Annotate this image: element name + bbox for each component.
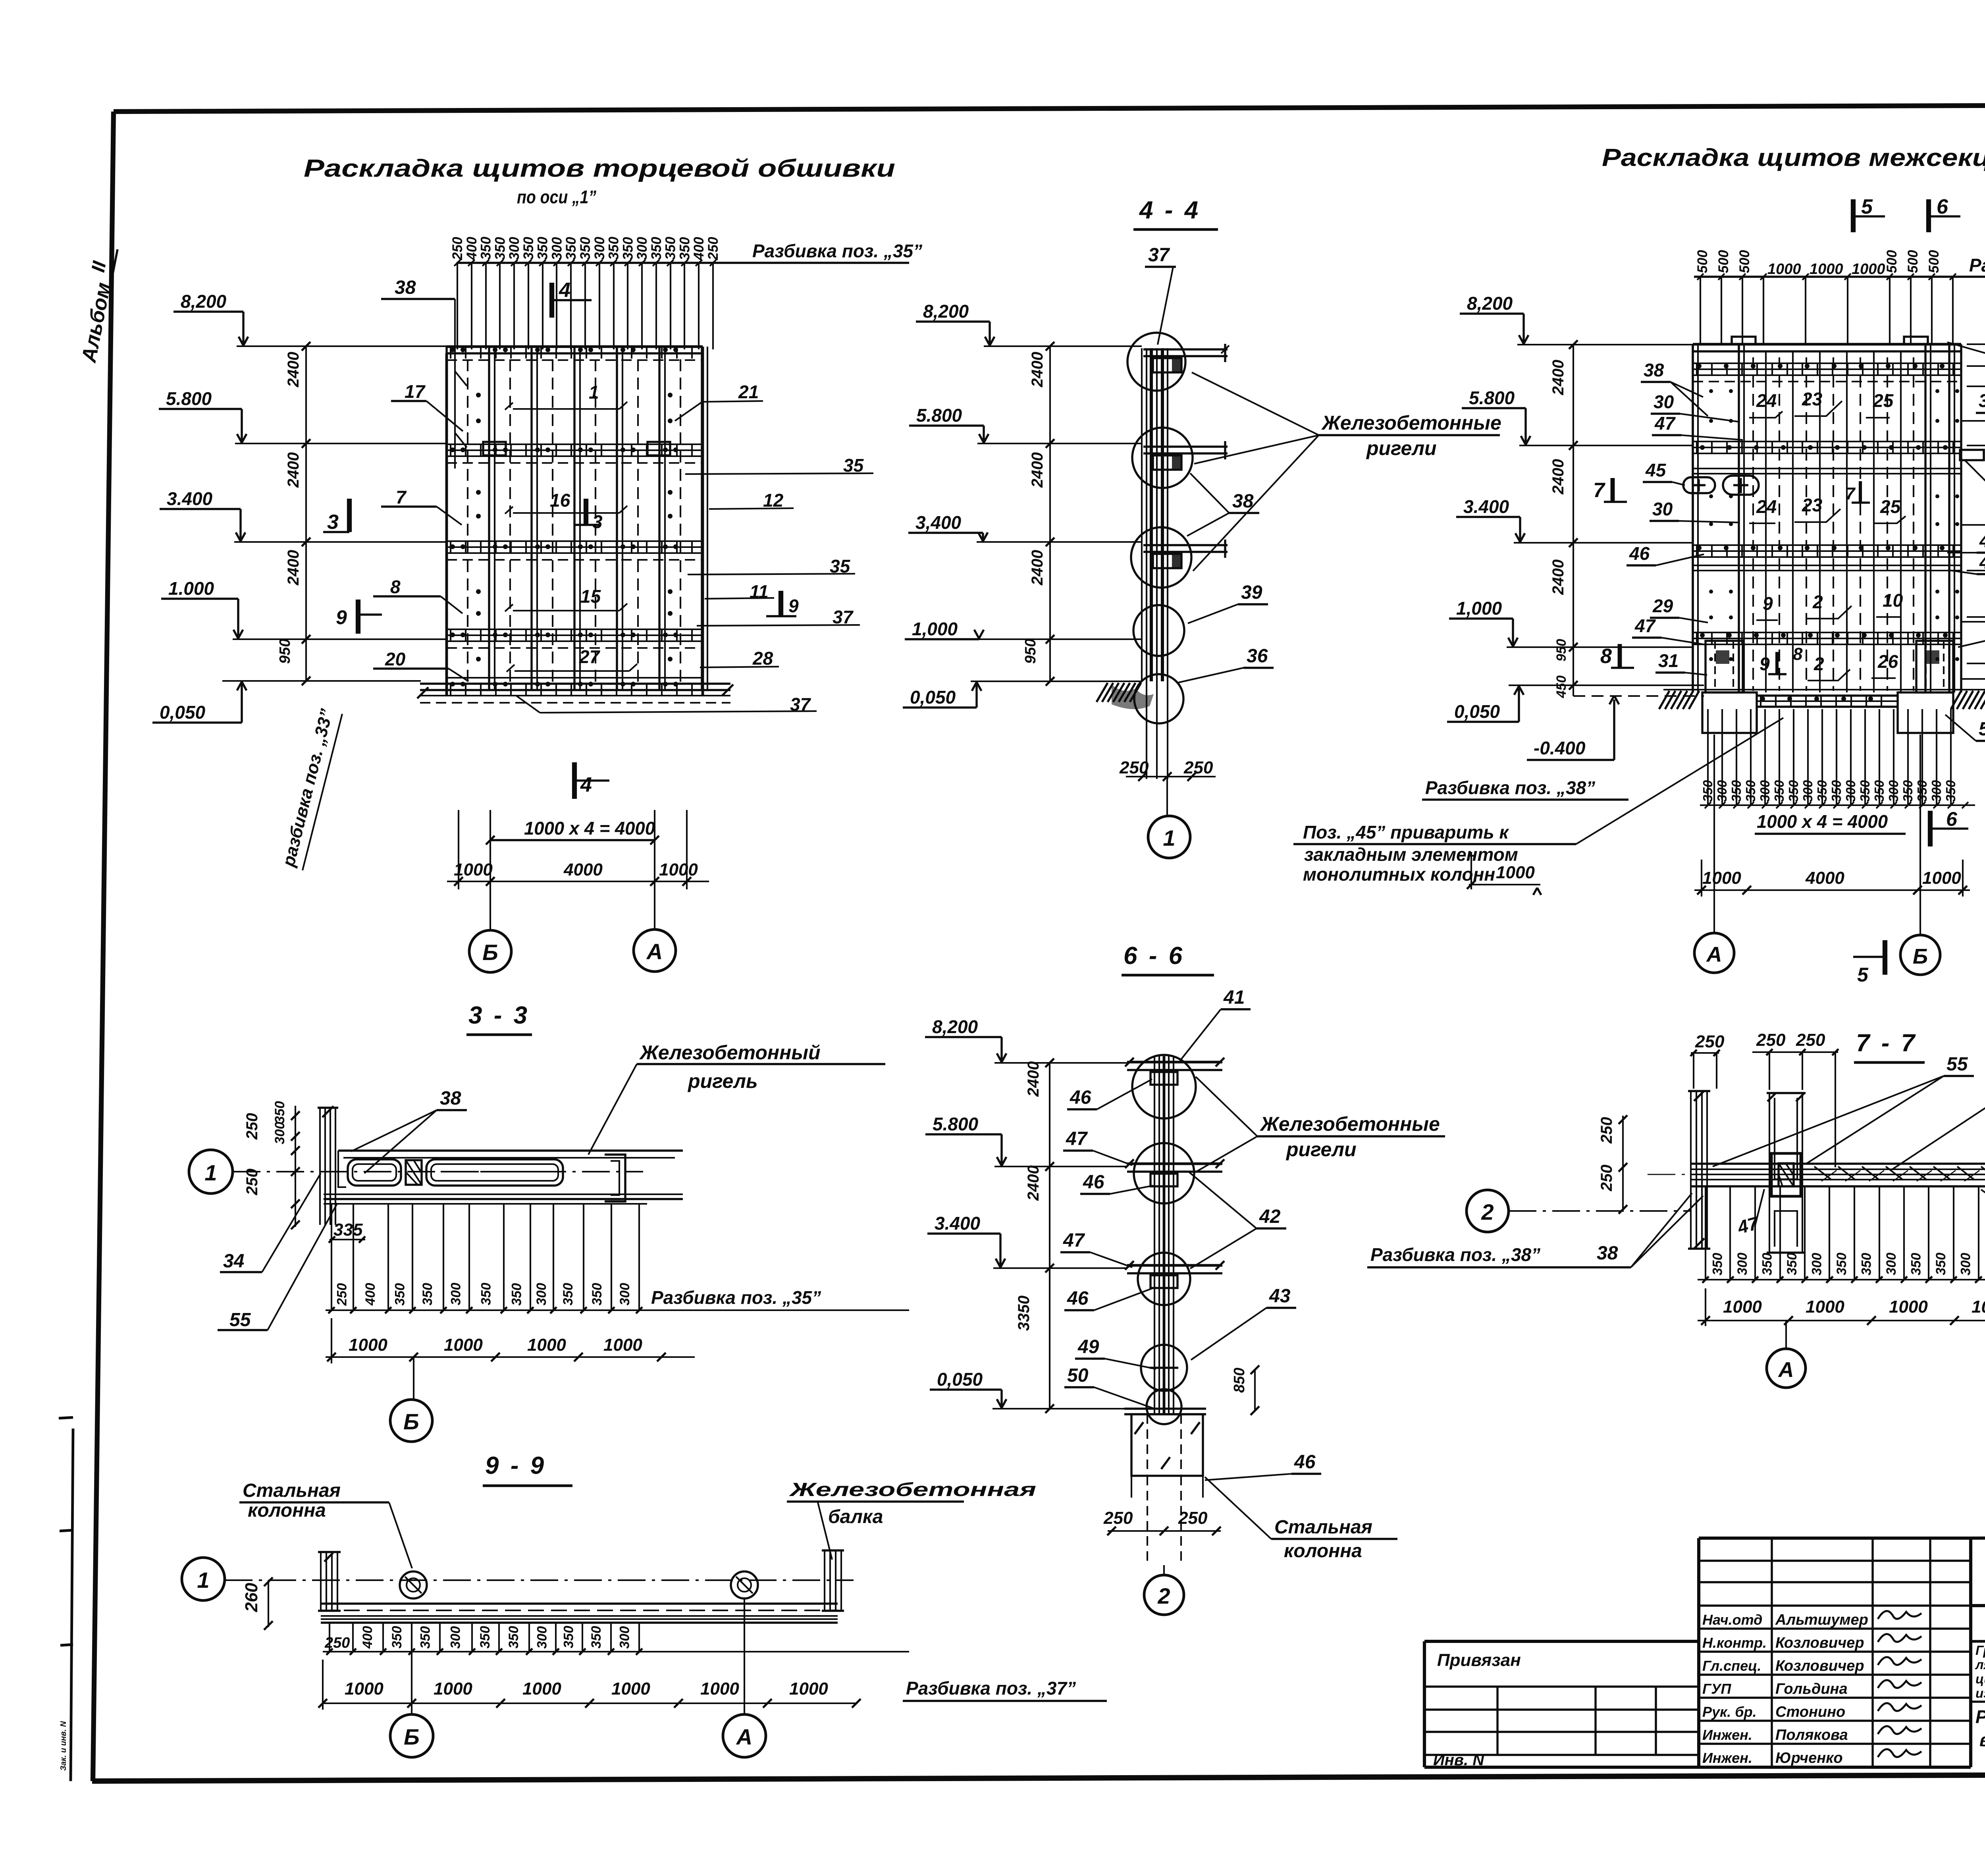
E2 ground line	[1663, 689, 1985, 690]
svg-text:350: 350	[1872, 780, 1887, 802]
S44 level lines	[984, 345, 1142, 347]
svg-text:31: 31	[1658, 650, 1679, 671]
S77 bolt washer square	[1771, 1153, 1801, 1196]
svg-text:300: 300	[617, 1283, 632, 1305]
svg-text:37: 37	[1148, 245, 1170, 266]
E2 top fan baseline / razbivka 40 underline	[1694, 276, 1985, 278]
svg-text:24: 24	[1756, 496, 1777, 517]
title block: designation box	[1971, 1537, 1985, 1538]
svg-text:1000: 1000	[611, 1679, 650, 1699]
svg-text:350: 350	[561, 1626, 576, 1648]
svg-text:по оси „1”: по оси „1”	[517, 187, 596, 207]
S33 beam body	[338, 1149, 683, 1151]
sheet border left	[93, 112, 114, 1781]
svg-text:9: 9	[336, 606, 347, 629]
E1 rail band level2	[447, 443, 703, 445]
S33 right end channel	[605, 1155, 625, 1201]
svg-text:400: 400	[363, 1283, 378, 1306]
svg-text:46: 46	[1067, 1288, 1089, 1309]
svg-text:4: 4	[580, 773, 592, 796]
svg-text:500: 500	[1905, 250, 1921, 273]
title block: privyazan box	[1424, 1640, 1699, 1643]
svg-text:Б: Б	[403, 1409, 419, 1434]
svg-text:2400: 2400	[1549, 459, 1567, 495]
S33 fan baseline	[326, 1309, 695, 1311]
E2 anchor capsule 1	[1683, 477, 1715, 493]
E1 level lines	[237, 345, 447, 347]
svg-text:350: 350	[649, 237, 664, 260]
svg-text:27: 27	[579, 646, 601, 667]
svg-text:500: 500	[1926, 250, 1942, 273]
svg-text:Разбивка поз. „35”: Разбивка поз. „35”	[651, 1287, 821, 1308]
svg-text:350: 350	[563, 237, 579, 260]
svg-text:450: 450	[1554, 675, 1569, 698]
svg-text:2400: 2400	[285, 352, 302, 388]
svg-text:1.000: 1.000	[168, 578, 214, 599]
svg-text:6: 6	[1946, 808, 1958, 830]
svg-text:Привязан: Привязан	[1437, 1650, 1521, 1670]
svg-text:16: 16	[550, 490, 570, 511]
svg-text:1000: 1000	[1810, 261, 1843, 278]
svg-text:350: 350	[389, 1626, 405, 1648]
svg-text:1000: 1000	[349, 1335, 387, 1355]
svg-text:49: 49	[1077, 1336, 1099, 1357]
svg-text:350: 350	[620, 237, 636, 260]
S77 bottom fan	[1705, 1187, 1706, 1280]
svg-text:300: 300	[534, 1283, 549, 1305]
svg-text:350: 350	[420, 1283, 435, 1305]
svg-text:8,200: 8,200	[923, 301, 969, 322]
svg-text:9: 9	[1763, 593, 1773, 614]
S77 member centerline	[1648, 1174, 1985, 1175]
S33 razbivka 35 extension	[695, 1309, 909, 1311]
svg-text:350: 350	[663, 237, 678, 260]
svg-text:1,000: 1,000	[912, 619, 958, 639]
svg-text:250: 250	[1183, 758, 1213, 777]
svg-text:2400: 2400	[1029, 452, 1046, 488]
svg-text:Инв. N: Инв. N	[1433, 1751, 1484, 1769]
svg-text:250: 250	[243, 1168, 261, 1195]
svg-text:1000: 1000	[603, 1335, 642, 1355]
svg-text:1: 1	[204, 1160, 217, 1185]
svg-text:8: 8	[1793, 644, 1803, 664]
svg-text:ГУП: ГУП	[1702, 1681, 1731, 1697]
svg-text:47: 47	[1066, 1128, 1088, 1149]
S77 axis circle 2	[1467, 1190, 1509, 1232]
S99 axis circle B	[390, 1714, 433, 1757]
svg-text:500: 500	[1737, 250, 1752, 273]
E1 axis line A	[654, 810, 655, 930]
svg-text:9: 9	[788, 596, 799, 616]
svg-text:47: 47	[1634, 615, 1656, 636]
S44 ledger bar level1	[1143, 348, 1228, 350]
svg-text:39: 39	[1241, 582, 1262, 603]
svg-text:350: 350	[1908, 1253, 1923, 1275]
svg-text:1: 1	[197, 1568, 209, 1593]
S99 axis line B	[411, 1623, 412, 1714]
binding tick 1	[59, 1417, 73, 1418]
S44 ledger bar level3	[1143, 544, 1228, 546]
svg-text:3.400: 3.400	[1463, 496, 1509, 517]
S33 dim line 2	[326, 1356, 695, 1358]
S44 axis circle 1	[1148, 816, 1190, 858]
svg-text:А: А	[1778, 1358, 1794, 1382]
E2 ground hatch right	[1951, 691, 1961, 709]
svg-text:42: 42	[1259, 1206, 1281, 1227]
svg-text:47: 47	[1654, 413, 1676, 434]
svg-text:7: 7	[396, 487, 407, 507]
S33 rigel leader	[588, 1064, 637, 1155]
svg-text:350: 350	[492, 237, 508, 260]
svg-text:А: А	[736, 1724, 752, 1749]
S77 axis line A	[1785, 1321, 1787, 1348]
svg-text:41: 41	[1223, 987, 1245, 1008]
S33 left dim stack	[295, 1106, 296, 1227]
sheet border top	[114, 104, 1985, 112]
svg-text:1000: 1000	[444, 1335, 483, 1355]
svg-text:26: 26	[1877, 651, 1898, 672]
E1 axis circle B	[469, 930, 511, 972]
S44 ground line	[971, 681, 1142, 682]
S77 axis circle A	[1767, 1349, 1806, 1388]
svg-text:Разбивка поз. „37”: Разбивка поз. „37”	[906, 1678, 1076, 1699]
E1 section flag 4 (bottom)	[572, 762, 577, 799]
svg-text:300: 300	[1929, 780, 1944, 802]
E2 axis line A	[1713, 735, 1715, 933]
svg-text:250: 250	[1796, 1030, 1825, 1050]
E2 axis line B	[1919, 735, 1921, 935]
svg-text:1000 х 4 = 4000: 1000 х 4 = 4000	[524, 818, 655, 839]
svg-text:350: 350	[393, 1283, 408, 1306]
svg-text:Б: Б	[404, 1724, 420, 1749]
svg-text:46: 46	[1070, 1087, 1091, 1108]
svg-text:350: 350	[1858, 780, 1872, 802]
svg-text:950: 950	[1022, 639, 1039, 664]
svg-text:36: 36	[1247, 646, 1268, 667]
svg-text:Зак. и инв. N: Зак. и инв. N	[59, 1721, 68, 1771]
svg-text:монолитных колонн: монолитных колонн	[1303, 864, 1495, 885]
svg-text:28: 28	[752, 648, 773, 669]
S66 pedestal flange	[1124, 1407, 1206, 1409]
privyazan inner grid	[1424, 1685, 1699, 1687]
svg-text:Нач.отд: Нач.отд	[1702, 1612, 1762, 1628]
svg-text:300: 300	[1800, 780, 1815, 802]
svg-text:1000: 1000	[454, 860, 493, 879]
svg-text:55: 55	[229, 1309, 251, 1330]
S99 beam	[321, 1602, 838, 1604]
svg-text:300: 300	[272, 1122, 287, 1144]
svg-text:29: 29	[1652, 596, 1673, 616]
svg-text:300: 300	[1715, 780, 1729, 802]
S77 wood hatch	[1814, 1166, 1832, 1180]
svg-text:250: 250	[324, 1635, 350, 1651]
title block: staff table	[1697, 1538, 1700, 1767]
S99 axis line A	[744, 1598, 745, 1714]
S99 bottom fan	[329, 1623, 330, 1652]
S66 bar level1	[1127, 1061, 1222, 1064]
svg-text:300: 300	[507, 237, 522, 260]
svg-text:335: 335	[333, 1220, 363, 1240]
svg-text:2400: 2400	[285, 550, 302, 586]
E2 foundation left	[1702, 692, 1757, 733]
svg-text:5.800: 5.800	[916, 405, 962, 426]
svg-text:300: 300	[535, 1626, 550, 1649]
svg-text:46: 46	[1294, 1452, 1316, 1473]
S66 bar level2	[1127, 1163, 1222, 1165]
S33 hatched block	[406, 1160, 422, 1185]
svg-text:1,000: 1,000	[1456, 598, 1502, 619]
svg-text:350: 350	[578, 237, 593, 260]
svg-text:Разбивка поз. „38”: Разбивка поз. „38”	[1370, 1244, 1540, 1265]
S66 detail circle 2	[1134, 1143, 1194, 1203]
svg-text:2400: 2400	[1029, 352, 1046, 388]
svg-text:9: 9	[1760, 654, 1770, 674]
S44 column shaft	[1141, 348, 1143, 681]
S99 axis dashdot	[225, 1579, 854, 1581]
svg-text:Альтшумер: Альтшумер	[1775, 1612, 1868, 1628]
svg-text:3.400: 3.400	[167, 488, 213, 509]
note Poz45 leader to foundation	[1576, 718, 1783, 844]
svg-text:30: 30	[1652, 499, 1673, 519]
svg-text:2: 2	[1481, 1199, 1494, 1224]
svg-text:300: 300	[549, 237, 565, 260]
description divider	[1971, 1701, 1985, 1702]
svg-text:20: 20	[385, 649, 406, 669]
S77 member	[1691, 1163, 1985, 1165]
svg-text:3,400: 3,400	[915, 512, 962, 533]
svg-text:400: 400	[360, 1626, 375, 1649]
svg-text:3: 3	[327, 511, 339, 534]
svg-text:8: 8	[390, 576, 401, 597]
svg-text:Стальная: Стальная	[1274, 1517, 1372, 1538]
S66 splice c4	[1150, 1367, 1178, 1369]
svg-text:10: 10	[1883, 590, 1903, 611]
E2 bottom fan baseline	[1700, 804, 1975, 806]
svg-text:350: 350	[506, 1626, 521, 1648]
svg-text:350: 350	[1915, 780, 1929, 802]
svg-text:8: 8	[1600, 645, 1612, 668]
svg-text:Гл.спец.: Гл.спец.	[1702, 1658, 1761, 1674]
svg-text:1000: 1000	[1972, 1297, 1985, 1317]
svg-text:Инжен.: Инжен.	[1702, 1727, 1752, 1743]
svg-text:950: 950	[277, 639, 293, 664]
E1 mid-panel dots	[476, 393, 481, 397]
svg-text:Б: Б	[1913, 945, 1928, 968]
svg-text:850: 850	[1231, 1368, 1248, 1393]
S44 detail circle 2	[1132, 428, 1193, 488]
S77 lower U channel	[1769, 1186, 1770, 1253]
svg-text:Гольдина: Гольдина	[1775, 1681, 1848, 1697]
E1 bottom dim lines	[490, 839, 655, 841]
E1 rail band level3	[447, 540, 703, 542]
svg-text:2400: 2400	[1025, 1061, 1042, 1097]
E1 rail plate right	[648, 442, 670, 455]
S44 detail circle 1	[1127, 333, 1185, 391]
svg-text:300: 300	[1735, 1253, 1750, 1275]
S44 buried column	[1146, 681, 1147, 779]
svg-text:3.400: 3.400	[935, 1213, 981, 1234]
svg-text:5.800: 5.800	[166, 388, 212, 409]
svg-text:50: 50	[1067, 1365, 1089, 1386]
svg-text:300: 300	[449, 1283, 464, 1305]
svg-text:Железобетонная: Железобетонная	[788, 1479, 1036, 1500]
S99 washer 2	[731, 1571, 758, 1598]
S77 dim line 2	[1698, 1320, 1985, 1321]
svg-text:Градирня двухсекционная с вент: Градирня двухсекционная с вент.	[1975, 1643, 1985, 1658]
E2 foundation slab dashed	[1573, 684, 1704, 686]
svg-text:из железобетонных элементов: из железобетонных элементов	[1975, 1686, 1985, 1701]
E1 grid dashed top line	[447, 359, 703, 361]
E2 rail band 2	[1693, 441, 1961, 442]
S99 fan baseline	[323, 1651, 909, 1652]
svg-text:400: 400	[464, 237, 480, 260]
svg-text:циями площадью 24м² с каркасом: циями площадью 24м² с каркасом	[1975, 1672, 1985, 1686]
E1 top fan lines	[457, 263, 458, 349]
E2 ground hatch left	[1659, 691, 1669, 709]
svg-text:Инжен.: Инжен.	[1702, 1750, 1752, 1766]
svg-text:1000: 1000	[1767, 261, 1801, 278]
svg-text:23: 23	[1802, 495, 1823, 515]
svg-text:350: 350	[509, 1283, 524, 1306]
svg-text:ригель: ригель	[687, 1070, 758, 1092]
S33 axis circle B	[390, 1400, 432, 1442]
svg-text:7: 7	[1593, 479, 1605, 502]
svg-text:Козловичер: Козловичер	[1775, 1658, 1864, 1674]
svg-text:2: 2	[1157, 1583, 1170, 1608]
E2 panel grid outline	[1693, 343, 1961, 346]
note Poz45 underline	[1293, 843, 1576, 845]
svg-text:46: 46	[1629, 543, 1650, 564]
svg-text:1000: 1000	[1852, 261, 1885, 278]
svg-text:350: 350	[478, 237, 494, 260]
E1 panel grid outline	[447, 345, 703, 348]
svg-text:25: 25	[1880, 496, 1901, 517]
svg-text:48: 48	[1979, 552, 1985, 573]
svg-text:300: 300	[592, 237, 607, 260]
E2 level lines	[1517, 344, 1693, 345]
svg-text:1: 1	[589, 382, 599, 403]
S66 axis circle 2	[1144, 1575, 1184, 1615]
svg-text:350: 350	[272, 1101, 287, 1124]
svg-text:38: 38	[1232, 491, 1254, 512]
E2 grid verticals double	[1692, 344, 1694, 692]
svg-text:1000: 1000	[522, 1679, 561, 1699]
E2 pedestal right	[1916, 641, 1953, 692]
svg-text:47: 47	[1063, 1230, 1085, 1251]
svg-text:0,050: 0,050	[937, 1369, 983, 1390]
svg-text:250: 250	[1756, 1030, 1786, 1050]
svg-text:1000: 1000	[345, 1679, 384, 1699]
svg-text:350: 350	[561, 1283, 576, 1305]
svg-text:А: А	[1706, 943, 1722, 966]
svg-text:1000: 1000	[1922, 868, 1961, 888]
S66 detail circle 3	[1138, 1253, 1190, 1305]
E1 top dimension fan baseline	[457, 262, 909, 264]
S99 left channel	[320, 1552, 322, 1611]
svg-text:250: 250	[243, 1113, 261, 1140]
svg-text:ригели: ригели	[1285, 1138, 1357, 1161]
svg-text:250: 250	[1695, 1032, 1725, 1051]
svg-text:1000: 1000	[1723, 1297, 1762, 1317]
S44 detail circle 5	[1134, 674, 1183, 723]
E2 pedestal left	[1706, 641, 1743, 692]
E2 section flag 5 (top)	[1851, 199, 1856, 232]
svg-text:250: 250	[1178, 1508, 1208, 1528]
E2 axis circle A	[1694, 933, 1734, 973]
S77 left channel	[1690, 1091, 1692, 1249]
svg-text:8,200: 8,200	[932, 1016, 978, 1037]
svg-text:350: 350	[606, 237, 622, 260]
svg-text:0,050: 0,050	[910, 687, 956, 708]
svg-text:Разбивка поз. „40”: Разбивка поз. „40”	[1969, 255, 1985, 276]
svg-text:350: 350	[1700, 780, 1715, 802]
svg-text:1000: 1000	[1702, 868, 1741, 888]
E2 axis circle B	[1900, 935, 1940, 975]
svg-text:300: 300	[1843, 780, 1858, 802]
svg-text:5: 5	[1857, 964, 1869, 986]
E2 section flag 6 (bottom)	[1928, 811, 1933, 846]
E2 anchor capsule 2	[1723, 476, 1759, 495]
svg-text:ляторами 3ВГ25 кабельная с сек: ляторами 3ВГ25 кабельная с сек-	[1975, 1657, 1985, 1672]
E2 top tabs	[1732, 337, 1756, 344]
S66 pedestal	[1131, 1414, 1203, 1476]
svg-text:350: 350	[1786, 780, 1801, 802]
svg-text:47: 47	[1979, 530, 1985, 551]
S77 upper U channel	[1769, 1093, 1770, 1195]
svg-text:1000: 1000	[789, 1679, 828, 1699]
svg-text:350: 350	[590, 1283, 605, 1305]
svg-text:250: 250	[705, 237, 721, 260]
svg-text:300: 300	[1758, 780, 1772, 802]
svg-text:350: 350	[1710, 1253, 1725, 1275]
svg-text:1000: 1000	[1889, 1297, 1928, 1317]
E1 base sill	[447, 677, 703, 679]
svg-text:300: 300	[617, 1626, 632, 1649]
S44 axis line 1	[1166, 779, 1168, 816]
svg-text:350: 350	[1743, 780, 1758, 802]
svg-text:250: 250	[335, 1283, 350, 1306]
svg-text:300: 300	[1886, 780, 1901, 802]
svg-text:Поз. „45” приварить к: Поз. „45” приварить к	[1303, 822, 1509, 843]
svg-text:Козловичер: Козловичер	[1775, 1635, 1864, 1651]
svg-text:38: 38	[440, 1088, 461, 1109]
S66 pedestal base dashes	[1147, 1476, 1148, 1565]
svg-text:А: А	[646, 939, 663, 964]
svg-text:350: 350	[1859, 1253, 1874, 1275]
svg-text:ригели: ригели	[1366, 437, 1437, 459]
E1 fastener dots	[450, 347, 455, 352]
svg-text:4000: 4000	[1805, 868, 1844, 888]
S99 axis circle 1	[182, 1558, 225, 1600]
S33 bottom fan	[331, 1204, 332, 1310]
svg-text:8,200: 8,200	[1467, 293, 1513, 314]
svg-text:38: 38	[1644, 360, 1664, 380]
svg-text:колонна: колонна	[1284, 1541, 1362, 1562]
S44 vertical dim chain	[1049, 346, 1051, 681]
S66 detail circle 5	[1147, 1389, 1181, 1424]
S33 axis circle 1	[189, 1150, 233, 1193]
svg-text:30: 30	[1979, 390, 1985, 411]
S66 axis line 2	[1163, 1565, 1165, 1575]
svg-text:350: 350	[535, 237, 551, 260]
svg-text:Раскладка щитов торце-: Раскладка щитов торце-	[1975, 1706, 1985, 1727]
svg-text:4000: 4000	[563, 860, 603, 879]
svg-text:3350: 3350	[1015, 1296, 1033, 1331]
svg-text:45: 45	[1645, 460, 1667, 480]
S99 washer 1	[400, 1571, 427, 1598]
svg-text:38: 38	[1597, 1243, 1618, 1264]
svg-text:15: 15	[580, 586, 601, 607]
